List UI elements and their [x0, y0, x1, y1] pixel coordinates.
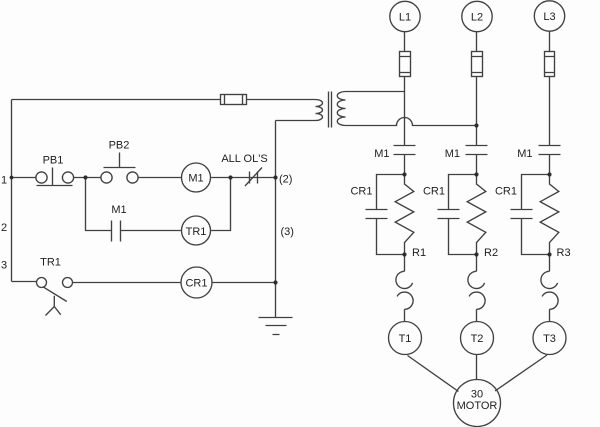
svg-text:T3: T3: [543, 333, 556, 345]
overload contact ALL OL'S: [245, 168, 262, 187]
transformer T primary winding: [316, 100, 323, 121]
wire: TR1 contact to coil CR1: [73, 282, 182, 284]
wire: T3 to motor: [495, 355, 547, 391]
fuse F3 (line L2): [472, 52, 483, 77]
fuse F2 (line L1): [400, 52, 411, 77]
overload heater OL1: [396, 255, 413, 322]
contact M1 (power pole 2): [466, 146, 488, 155]
wire: secondary bottom with crossover hump to L2 node: [346, 118, 477, 126]
svg-text:R3: R3: [557, 247, 571, 259]
wire: left rail: [11, 100, 13, 282]
wire: rung 1 from rail to PB1: [12, 177, 36, 179]
wire: pole 1 contact to node: [404, 155, 406, 175]
junction: rail / rung 1: [10, 176, 14, 180]
contact CR1 (pole 1 branch): [366, 175, 405, 255]
wire: coil TR1 up to rung 1: [211, 178, 231, 231]
junction: secondary / L2 line: [474, 123, 478, 127]
junction: pole3 branch bottom R3: [547, 252, 551, 256]
svg-text:1: 1: [1, 175, 7, 187]
svg-text:M1: M1: [374, 148, 389, 160]
svg-text:R1: R1: [412, 247, 426, 259]
svg-text:ALL OL'S: ALL OL'S: [221, 153, 267, 165]
junction: pole2 branch top: [474, 172, 478, 176]
svg-text:PB2: PB2: [109, 139, 130, 151]
wire: secondary top to L1 node: [346, 91, 405, 93]
terminal T1: [389, 322, 422, 355]
wire: contact M1 to coil TR1: [121, 230, 182, 232]
junction: pole3 branch top: [547, 172, 551, 176]
terminal L2: [462, 1, 492, 31]
contact M1 (power pole 1): [394, 146, 416, 155]
contact CR1 (pole 2 branch): [438, 175, 477, 255]
wire: right rail (control return): [275, 121, 277, 318]
wire: PB2 to coil M1: [138, 177, 181, 179]
wire: L1 fuse to contact M1: [404, 77, 406, 146]
svg-text:L3: L3: [543, 11, 555, 23]
svg-text:M1: M1: [445, 148, 460, 160]
pushbutton PB2 (NO): [101, 153, 138, 184]
svg-text:CR1: CR1: [350, 186, 372, 198]
timed contact TR1 (NOTC): [37, 278, 73, 316]
terminal T3: [533, 322, 566, 355]
overload heater OL2: [468, 255, 485, 322]
svg-text:L1: L1: [399, 12, 411, 24]
transformer T secondary winding: [337, 92, 345, 126]
junction: rung1 / TR1 branch: [228, 175, 232, 179]
junction: rung1 / rung2 branch: [83, 175, 87, 179]
svg-text:PB1: PB1: [43, 155, 64, 167]
wire: coil M1 to overload contact: [211, 177, 276, 179]
wire: pole 2 contact to node: [476, 155, 478, 175]
wire: coil CR1 to right rail: [212, 282, 276, 284]
fuse F1 (control circuit): [221, 95, 247, 105]
junction: rung1 / right rail node (2): [273, 175, 277, 179]
svg-text:2: 2: [1, 222, 7, 234]
resistor R1: [395, 175, 414, 255]
contact M1 (power pole 3): [539, 146, 561, 155]
svg-text:30: 30: [471, 389, 483, 401]
terminal L3: [534, 1, 564, 31]
junction: rung3 / right rail: [273, 280, 277, 284]
wire: control top line (left of fuse): [12, 99, 221, 101]
wire: T2 to motor: [476, 355, 478, 380]
wire: rung 3 from rail to TR1 contact: [12, 281, 37, 283]
contact CR1 (pole 3 branch): [511, 175, 550, 255]
overload heater OL3: [541, 255, 558, 322]
ground: [259, 318, 293, 335]
svg-text:(2): (2): [279, 174, 292, 186]
svg-text:T2: T2: [471, 333, 484, 345]
svg-text:T1: T1: [399, 333, 412, 345]
svg-text:(3): (3): [281, 226, 294, 238]
junction: pole2 branch bottom R2: [474, 252, 478, 256]
wire: T1 to motor: [408, 356, 459, 392]
fuse F4 (line L3): [545, 52, 555, 77]
svg-text:TR1: TR1: [40, 256, 61, 268]
svg-text:TR1: TR1: [186, 226, 207, 238]
coil M1: [182, 163, 211, 192]
svg-text:CR1: CR1: [423, 186, 445, 198]
wire: L3 to fuse: [549, 31, 551, 52]
wire: L2 to fuse: [476, 32, 478, 52]
wire: rung 2 branch down from rung 1: [86, 178, 112, 231]
wire: L2 fuse to contact M1: [476, 77, 478, 146]
svg-text:CR1: CR1: [495, 186, 517, 198]
terminal L1: [390, 1, 420, 31]
junction: pole1 branch bottom R1: [402, 252, 406, 256]
wire: pole 3 contact to node: [549, 155, 551, 175]
pushbutton PB1 (NC): [36, 168, 74, 186]
motor M (3-phase): [454, 380, 501, 427]
svg-text:M1: M1: [517, 148, 532, 160]
wire: L1 to fuse: [404, 32, 406, 52]
coil TR1: [182, 216, 211, 245]
svg-text:CR1: CR1: [185, 278, 207, 290]
junction: pole1 branch top: [402, 172, 406, 176]
terminal T2: [461, 322, 494, 355]
svg-text:MOTOR: MOTOR: [457, 400, 498, 412]
transformer T core: [329, 92, 332, 128]
coil CR1: [181, 267, 212, 298]
wire: L3 fuse to contact M1: [549, 77, 551, 146]
svg-text:3: 3: [1, 260, 7, 272]
svg-text:R2: R2: [484, 247, 498, 259]
svg-text:L2: L2: [471, 12, 483, 24]
contact M1 (NO auxiliary): [112, 221, 121, 242]
wire: control top line (right of fuse): [247, 99, 316, 101]
svg-text:M1: M1: [111, 204, 126, 216]
wire: PB1 to PB2: [74, 177, 101, 179]
svg-text:M1: M1: [188, 173, 203, 185]
resistor R2: [467, 175, 486, 255]
resistor R3: [540, 175, 559, 255]
wire: primary bottom to right rail: [276, 120, 316, 122]
